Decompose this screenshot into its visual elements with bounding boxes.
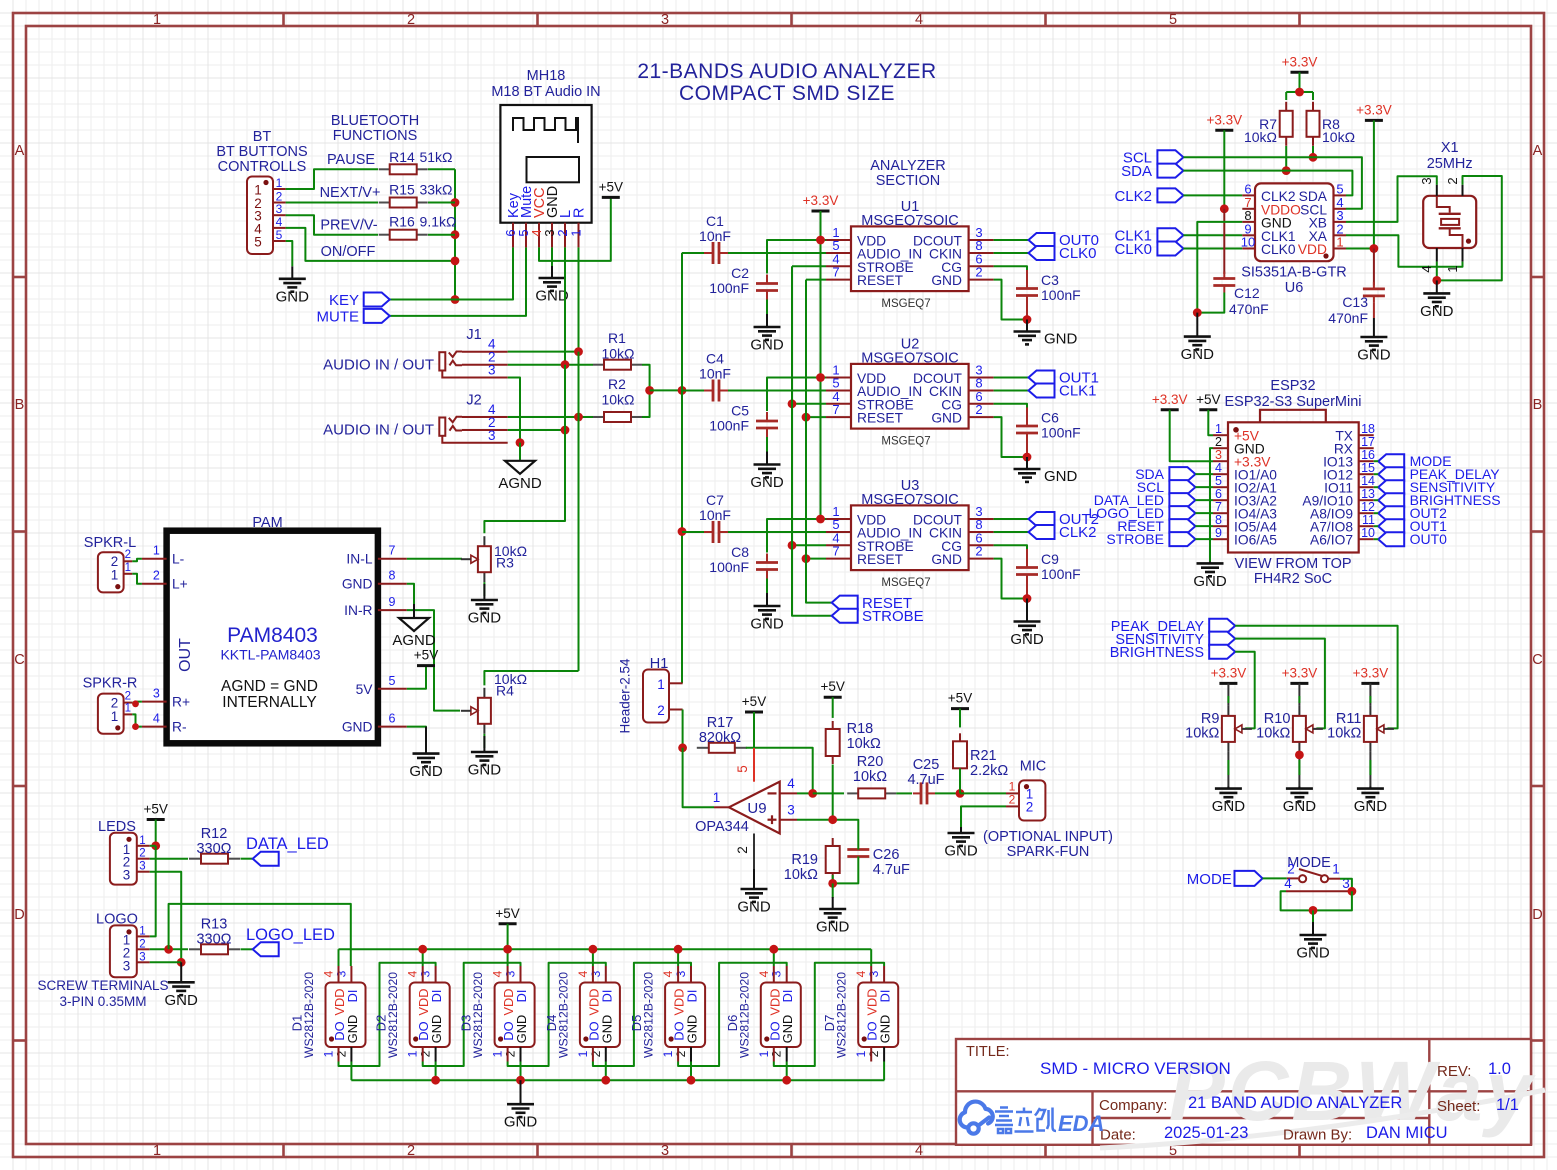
net flag SDA: [1157, 164, 1183, 178]
net flag CLK1: [1029, 384, 1055, 398]
svg-text:2: 2: [139, 938, 145, 950]
svg-text:L-: L-: [172, 552, 184, 567]
wire C5 to GND: [766, 437, 768, 452]
D6 pin stubs: [773, 966, 775, 983]
svg-text:GND: GND: [409, 763, 443, 780]
svg-text:R18: R18: [847, 721, 874, 737]
wire R11 to GND: [1369, 752, 1371, 789]
wire U2 STROBE to bus: [792, 403, 826, 405]
svg-text:VDD: VDD: [1298, 242, 1327, 257]
svg-text:GND: GND: [878, 1015, 893, 1043]
net flag OUT1: [1029, 371, 1055, 385]
wire BT pin2 to R15 (NEXT/V+): [286, 202, 378, 204]
U9 non-inverting input pin 3: [780, 819, 797, 821]
svg-text:GND: GND: [750, 337, 784, 354]
wire audio node to analyzer bus: [650, 389, 682, 391]
LED D1 WS2812B-2020: [326, 983, 366, 1048]
svg-text:MH18: MH18: [527, 68, 566, 84]
wire J2 pin2 to L net: [508, 429, 565, 431]
svg-text:OPA344: OPA344: [695, 819, 749, 835]
svg-text:100nF: 100nF: [1041, 287, 1081, 303]
wire D3 VDD to +5V rail: [507, 949, 509, 966]
wire KEY flag to Key pin: [390, 247, 513, 299]
svg-text:GND: GND: [944, 843, 978, 860]
ground GND below ESP32: [1209, 561, 1211, 563]
wire U2 CKIN to CLK1 flag: [994, 390, 1029, 392]
svg-text:GND: GND: [514, 1015, 529, 1043]
potentiometer R10 10k: [1298, 706, 1300, 716]
wire SPKR-L pin2 to L-: [132, 559, 142, 562]
potentiometer R11 10k: [1369, 706, 1371, 716]
svg-text:3: 3: [661, 12, 669, 28]
wire SPKR-L pin1 to L+: [132, 574, 142, 584]
resistor R1 10k: [593, 364, 604, 366]
ground GND below U9: [753, 869, 755, 889]
junction bus at C4 row: [678, 386, 687, 395]
svg-text:CLK2: CLK2: [1059, 524, 1097, 541]
svg-text:MIC: MIC: [1020, 759, 1047, 775]
ground GND at BT connector: [291, 266, 293, 279]
wire U1 VDD to rail and C2: [767, 240, 826, 274]
svg-text:TITLE:: TITLE:: [966, 1044, 1010, 1060]
svg-text:100nF: 100nF: [1041, 566, 1081, 582]
wire PEAK_DELAY to R11 wiper: [1235, 626, 1397, 729]
svg-text:OUT: OUT: [177, 638, 194, 672]
wire C7 to U3 AUDIO_IN: [728, 531, 826, 533]
wire U1 RESET to bus: [806, 279, 826, 281]
svg-text:1: 1: [661, 1050, 675, 1057]
junction below R10: [1295, 751, 1304, 760]
wire D6 VDD to +5V rail: [773, 949, 775, 966]
power +5V at LEDS: [147, 818, 165, 821]
net flag OUT0 at ESP32 right: [1378, 532, 1404, 546]
svg-text:C12: C12: [1234, 285, 1260, 301]
svg-text:1: 1: [111, 568, 119, 583]
wire R down segment to R4 line: [578, 352, 580, 417]
power +3.3V above R7 R8: [1291, 71, 1309, 74]
svg-text:10kΩ: 10kΩ: [1322, 129, 1355, 145]
junction bus/R15: [451, 198, 460, 207]
svg-text:+5V: +5V: [495, 906, 519, 921]
svg-text:3: 3: [867, 970, 881, 977]
svg-text:A: A: [1533, 143, 1543, 159]
wire D1 DO to D2 DI: [339, 963, 436, 1066]
svg-text:4: 4: [322, 970, 336, 977]
svg-text:3: 3: [153, 687, 160, 701]
svg-text:BT: BT: [253, 129, 272, 145]
svg-text:9: 9: [1215, 526, 1222, 540]
svg-text:ANALYZER: ANALYZER: [870, 158, 945, 174]
svg-text:A6/IO7: A6/IO7: [1310, 533, 1353, 548]
wire LOGO pin3 to GND: [150, 961, 182, 963]
svg-text:CLK0: CLK0: [1261, 242, 1296, 257]
net flag RESET: [832, 596, 858, 610]
ground GND below LOGO: [180, 962, 182, 982]
svg-text:3: 3: [488, 363, 496, 378]
svg-text:3: 3: [661, 1143, 669, 1159]
svg-text:IN-R: IN-R: [344, 603, 372, 618]
wire LOGO data to D1 DI: [169, 904, 351, 966]
wire PAM 5V pin to +5V: [407, 666, 426, 689]
svg-text:BT BUTTONS: BT BUTTONS: [216, 144, 307, 160]
svg-text:4: 4: [1284, 876, 1292, 891]
svg-text:18: 18: [1361, 422, 1375, 436]
svg-text:2: 2: [125, 690, 131, 702]
wire +3.3V split to R7 R8: [1299, 72, 1301, 92]
svg-text:+3.3V: +3.3V: [1353, 665, 1389, 680]
svg-text:GND: GND: [1357, 347, 1391, 364]
audio bus vertical: [681, 253, 683, 684]
svg-text:10kΩ: 10kΩ: [601, 392, 634, 408]
svg-text:WS2812B-2020: WS2812B-2020: [471, 972, 485, 1058]
wire U6 VDD pin to junction: [1346, 248, 1374, 250]
junction + input node: [828, 815, 837, 824]
wire LOGO pin2 to R13 and LED data: [150, 948, 188, 950]
wire U3 CG to C9: [994, 545, 1027, 549]
svg-text:GND: GND: [165, 992, 199, 1009]
svg-text:C7: C7: [706, 492, 724, 508]
D4 pin stubs: [592, 966, 594, 983]
svg-text:SCREW TERMINALS: SCREW TERMINALS: [37, 978, 168, 993]
svg-text:14: 14: [1361, 474, 1375, 488]
junction bias ground node: [828, 879, 837, 888]
svg-text:10kΩ: 10kΩ: [601, 346, 634, 362]
wire R12 to DATA_LED flag: [241, 858, 253, 860]
wire D3 DO to D4 DI: [508, 963, 606, 1066]
power +3.3V rail for MSGEQ7s: [812, 210, 830, 213]
svg-text:3: 3: [419, 970, 433, 977]
LED D5 WS2812B-2020: [665, 983, 705, 1048]
net flag CLK2: [1157, 188, 1183, 202]
resistor R20 10k: [847, 792, 858, 794]
svg-text:7: 7: [832, 544, 839, 559]
wire U3 DCOUT to OUT2 flag: [994, 518, 1029, 520]
svg-text:EDA: EDA: [1058, 1111, 1104, 1136]
svg-text:8: 8: [389, 569, 396, 583]
D1 pin stubs: [338, 966, 340, 983]
net flag PEAK_DELAY at ESP32 right: [1378, 467, 1404, 481]
junction J1 pin4 / R net: [574, 347, 583, 356]
svg-text:X1: X1: [1441, 140, 1459, 156]
wire +5V to LEDS pin1: [155, 820, 157, 846]
svg-text:GND: GND: [1296, 945, 1330, 962]
D2 pin stubs: [422, 966, 424, 983]
svg-text:10: 10: [1361, 526, 1375, 540]
svg-text:J1: J1: [466, 327, 481, 343]
svg-text:2: 2: [1009, 792, 1016, 806]
svg-text:9: 9: [389, 595, 396, 609]
svg-text:2: 2: [770, 1050, 784, 1057]
wire U1 STROBE to bus: [792, 265, 826, 267]
svg-text:470nF: 470nF: [1328, 310, 1368, 326]
net flag STROBE: [832, 609, 858, 623]
wire +3.3V to VDDO and C12: [1223, 130, 1225, 209]
D5 pin stubs: [677, 966, 679, 983]
svg-text:5: 5: [1215, 474, 1222, 488]
wire switch ground loop: [1281, 891, 1352, 910]
wire to GND: [1312, 910, 1314, 923]
svg-text:3-PIN 0.35MM: 3-PIN 0.35MM: [59, 994, 146, 1009]
svg-text:CLK2: CLK2: [1114, 188, 1152, 205]
net flag LOGO_LED at ESP32: [1169, 506, 1195, 520]
svg-text:1: 1: [1009, 779, 1016, 793]
pin-1 marker ESP32: [1233, 427, 1239, 433]
wire SPKR-R pin2 to R+: [132, 702, 142, 703]
svg-text:MODE: MODE: [1187, 871, 1232, 888]
svg-text:U6: U6: [1285, 280, 1304, 296]
svg-text:C3: C3: [1041, 272, 1059, 288]
power +5V at LED rail: [499, 922, 517, 925]
svg-text:+5V: +5V: [1196, 392, 1220, 407]
svg-text:3: 3: [123, 958, 131, 973]
wire J1 pin2 to R1: [508, 364, 593, 366]
wire +3.3V down to VDD junction: [1373, 120, 1375, 248]
wire D1 VDD to +5V rail: [338, 949, 340, 966]
svg-text:7: 7: [1215, 500, 1222, 514]
svg-text:2: 2: [867, 1050, 881, 1057]
wire R21 to MIC node: [959, 768, 961, 793]
svg-text:R14: R14: [389, 149, 415, 165]
svg-text:1: 1: [1336, 235, 1343, 250]
svg-text:2: 2: [139, 848, 145, 860]
wire inverting node to R20: [813, 792, 844, 794]
net flag RESET at ESP32: [1169, 519, 1195, 533]
svg-text:R3: R3: [496, 555, 514, 571]
net flag OUT0: [1029, 233, 1055, 247]
X1 pin stubs: [1436, 185, 1438, 196]
wire D5 VDD to +5V rail: [677, 949, 679, 966]
wire D3 GND to rail: [520, 1062, 522, 1081]
net flag OUT1 at ESP32 right: [1378, 519, 1404, 533]
junction X1 ground node: [1432, 276, 1441, 285]
wire U1 GND pin to C3 bottom: [994, 280, 1027, 320]
wire +5V to R21: [959, 709, 961, 728]
svg-text:3: 3: [139, 951, 145, 963]
svg-text:IN-L: IN-L: [346, 552, 372, 567]
net flag CLK2: [1029, 525, 1055, 539]
svg-text:1: 1: [276, 176, 283, 190]
svg-text:U9: U9: [747, 800, 766, 817]
svg-text:RESET: RESET: [857, 552, 904, 567]
wire CLK0 to U6 pin10: [1183, 248, 1242, 250]
svg-text:13: 13: [1361, 487, 1375, 501]
svg-text:DAN MICU: DAN MICU: [1366, 1124, 1448, 1142]
svg-text:2: 2: [125, 549, 131, 561]
junction J2 pin2 / L net: [561, 426, 570, 435]
switch lever: [1299, 869, 1323, 876]
capacitor C6 100nF: [1026, 425, 1028, 427]
svg-text:10kΩ: 10kΩ: [784, 867, 818, 883]
svg-text:5: 5: [1169, 12, 1177, 28]
svg-text:2: 2: [407, 12, 415, 28]
svg-text:+5V: +5V: [599, 179, 623, 194]
capacitor C7 10nF: [704, 531, 713, 533]
svg-text:CLK0: CLK0: [1059, 245, 1097, 262]
junction LOGO pin2: [164, 945, 173, 954]
svg-text:CLK1: CLK1: [1059, 383, 1097, 400]
svg-text:AGND = GND: AGND = GND: [221, 678, 318, 695]
U9 plus symbol: [768, 819, 777, 821]
ground GND below R3: [483, 584, 485, 600]
svg-text:+3.3V: +3.3V: [1282, 54, 1318, 69]
net flag SENSITIVITY at ESP32 right: [1378, 480, 1404, 494]
junction inverting node: [808, 789, 817, 798]
svg-text:10kΩ: 10kΩ: [1185, 726, 1219, 742]
svg-text:3: 3: [1215, 448, 1222, 462]
wire U3 CKIN to CLK2 flag: [994, 531, 1029, 533]
svg-text:1: 1: [1332, 862, 1340, 877]
net flag BRIGHTNESS at ESP32 right: [1378, 493, 1404, 507]
MH18 inner rectangle: [527, 157, 580, 182]
wire +5V to ESP32 pin1: [1208, 410, 1213, 435]
svg-text:C1: C1: [706, 213, 724, 229]
wire D4 GND to rail: [605, 1062, 607, 1081]
power +3.3V above R11: [1361, 682, 1379, 685]
svg-text:A: A: [15, 143, 25, 159]
svg-text:2: 2: [674, 1050, 688, 1057]
wire bus to C4: [682, 390, 704, 392]
wire D6 DO to D7 DI: [774, 963, 884, 1066]
power +3.3V at ESP32: [1161, 408, 1179, 411]
svg-text:4.7uF: 4.7uF: [907, 772, 944, 788]
svg-text:R-: R-: [172, 720, 187, 735]
svg-text:DI: DI: [878, 990, 893, 1003]
svg-text:+5V: +5V: [742, 694, 766, 709]
svg-text:+5V: +5V: [143, 802, 167, 817]
wire U2 GND pin to C6 bottom: [994, 417, 1027, 457]
svg-text:C25: C25: [913, 757, 940, 773]
svg-text:33kΩ: 33kΩ: [419, 182, 452, 198]
svg-text:C9: C9: [1041, 551, 1059, 567]
wire J1 pin3 down: [508, 378, 520, 443]
capacitor C25 4.7uF: [913, 792, 921, 794]
capacitor C4 10nF: [704, 390, 713, 392]
svg-text:ON/OFF: ON/OFF: [321, 244, 376, 260]
resistor R8 10k pullup SCL: [1312, 102, 1314, 111]
wire X1 pin2 loop to GND: [1437, 176, 1502, 280]
wire reset bus: [806, 280, 832, 603]
svg-text:CLK0: CLK0: [1114, 241, 1152, 258]
svg-text:4: 4: [915, 12, 923, 28]
svg-text:GND: GND: [1044, 468, 1078, 485]
svg-text:10kΩ: 10kΩ: [853, 769, 887, 785]
svg-text:R2: R2: [608, 376, 626, 392]
wire MIC node to MIC pin1: [960, 792, 1006, 794]
power +5V above R18: [824, 696, 842, 699]
svg-text:4: 4: [276, 215, 283, 229]
svg-text:2: 2: [1445, 177, 1460, 184]
svg-text:C5: C5: [731, 403, 749, 419]
svg-text:2: 2: [407, 1143, 415, 1159]
resistor R14 51k: [379, 168, 390, 170]
svg-text:7: 7: [389, 544, 396, 558]
wire R20 to C25: [896, 792, 912, 794]
wire C13 to GND: [1373, 303, 1375, 318]
op-amp U9 OPA344: [729, 782, 780, 834]
net flag PEAK_DELAY row: [1209, 619, 1235, 633]
capacitor C9 100nF: [1026, 567, 1028, 569]
wire R14 to bus: [428, 168, 455, 170]
wire R10 to GND: [1298, 752, 1300, 789]
pin-1 marker D5: [669, 1036, 674, 1041]
svg-text:SPARK-FUN: SPARK-FUN: [1007, 844, 1090, 860]
svg-text:D: D: [1532, 907, 1542, 923]
svg-text:1: 1: [657, 677, 665, 692]
svg-text:3: 3: [334, 970, 348, 977]
LED D6 WS2812B-2020: [761, 983, 801, 1048]
svg-text:R15: R15: [389, 182, 415, 198]
svg-text:WS2812B-2020: WS2812B-2020: [302, 972, 316, 1058]
LED GND rail: [351, 1079, 884, 1081]
svg-text:LOGO_LED: LOGO_LED: [246, 926, 335, 944]
D7 pin stubs: [870, 966, 872, 983]
LED D2 WS2812B-2020: [410, 983, 450, 1048]
svg-text:470nF: 470nF: [1229, 301, 1269, 317]
svg-text:VIEW FROM TOP: VIEW FROM TOP: [1234, 556, 1351, 572]
svg-text:Date:: Date:: [1100, 1127, 1136, 1144]
svg-text:10nF: 10nF: [699, 507, 731, 523]
wire LEDS pin3 to LOGO pin3 (GND): [150, 872, 182, 963]
svg-text:1: 1: [125, 562, 131, 574]
svg-text:1: 1: [491, 1050, 505, 1057]
wire BT pin3 to R16 (PREV/V-): [286, 215, 378, 235]
pin-1 marker D1: [329, 1036, 334, 1041]
net flag LOGO_LED: [253, 942, 279, 956]
svg-text:DI: DI: [345, 990, 360, 1003]
connector BT (5-pin): [247, 177, 273, 255]
switch pins 3-4 bar: [1286, 890, 1352, 892]
svg-text:4: 4: [406, 970, 420, 977]
wire pin1 to pin3: [1340, 879, 1352, 892]
svg-text:L+: L+: [172, 577, 188, 592]
svg-text:3: 3: [787, 803, 795, 818]
junction J2 pin4 / R net down: [574, 413, 583, 422]
svg-text:GND: GND: [931, 411, 962, 426]
svg-text:B: B: [1533, 397, 1543, 413]
ground GND below C6: [1026, 457, 1028, 469]
svg-text:2.2kΩ: 2.2kΩ: [970, 763, 1008, 779]
capacitor C5 100nF: [766, 412, 768, 421]
wire SENSITIVITY to R10 wiper: [1235, 639, 1325, 729]
svg-text:RESET: RESET: [857, 273, 904, 288]
capacitor C1 10nF: [704, 252, 713, 254]
svg-text:11: 11: [1362, 513, 1375, 527]
capacitor C26 4.7uF: [857, 849, 859, 851]
svg-text:GND: GND: [685, 1015, 700, 1043]
svg-text:FUNCTIONS: FUNCTIONS: [333, 128, 418, 144]
svg-text:1: 1: [111, 709, 119, 724]
svg-text:1: 1: [153, 544, 160, 558]
wire X1 pin4 to GND junction: [1436, 262, 1438, 281]
svg-text:25MHz: 25MHz: [1427, 156, 1473, 172]
svg-text:2: 2: [419, 1050, 433, 1057]
wire U3 RESET to bus: [806, 558, 826, 560]
svg-text:BLUETOOTH: BLUETOOTH: [331, 113, 419, 129]
wire D5 GND to rail: [690, 1062, 692, 1081]
svg-text:4: 4: [661, 970, 675, 977]
svg-text:AUDIO IN / OUT: AUDIO IN / OUT: [323, 422, 434, 439]
svg-text:4: 4: [1215, 461, 1222, 475]
svg-text:DI: DI: [780, 990, 795, 1003]
wire U3 VDD to rail and C8: [767, 519, 826, 553]
svg-text:SMD - MICRO VERSION: SMD - MICRO VERSION: [1040, 1059, 1231, 1078]
svg-text:DI: DI: [514, 990, 529, 1003]
svg-text:330Ω: 330Ω: [196, 841, 231, 857]
svg-text:1: 1: [854, 1050, 868, 1057]
svg-text:10kΩ: 10kΩ: [1327, 726, 1361, 742]
svg-text:D: D: [14, 907, 24, 923]
svg-text:GND: GND: [1212, 798, 1246, 815]
